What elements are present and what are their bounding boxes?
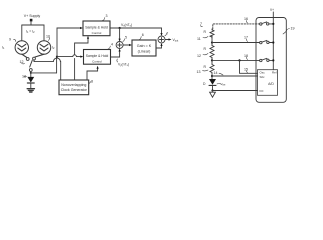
svg-text:Gain = K: Gain = K [137,44,152,48]
ref 6 [140,37,142,40]
label V+ [270,8,274,12]
ref 7b dashed line [201,26,203,27]
node diode anode junction [30,72,32,74]
svg-text:12: 12 [20,60,24,64]
arrowhead box1 control [87,36,89,39]
wire box2 output to summer1 [111,50,120,57]
wire box1 output [110,28,162,35]
wire gnd to chip [213,90,258,92]
svg-text:Vx(nTs): Vx(nTs) [121,23,132,28]
label 14 [214,71,218,75]
switch row2 [260,41,262,43]
clock generator box 8 [59,80,89,95]
switch throw contact right [33,57,36,60]
resistor R11 [210,29,214,38]
arrowhead summer1 top [119,39,121,42]
ground [27,88,34,90]
resistor R13 [210,64,214,73]
svg-text:12: 12 [197,54,201,58]
gain box 6 [132,40,156,56]
wire up to S&H input rail [56,57,58,73]
wire row3 [212,58,260,65]
ref 12 [22,62,25,65]
wire clock to box2 control [87,67,98,80]
ref 8 [89,82,91,84]
current source I2 [37,41,50,54]
wire row3 branch to A/D [240,60,258,73]
svg-text:I1 = I2: I1 = I2 [26,30,35,35]
wire diode to gnd node [212,86,214,91]
label 17 [244,36,248,40]
arrowhead box1 input [80,27,83,29]
svg-text:14: 14 [214,71,218,75]
ref 13 [24,75,27,78]
svg-text:V+: V+ [270,8,274,12]
label 16 [244,17,248,21]
svg-text:Sample & Hold: Sample & Hold [85,25,108,29]
wire supply rail [22,24,44,26]
sample & hold box 3 [83,21,110,36]
label VBE [217,83,221,86]
arrowhead gain input [129,44,132,46]
svg-text:V+ Supply: V+ Supply [24,14,41,18]
arrowhead summer1 bottom [119,49,121,52]
wire right source to switch throw [35,54,44,57]
wire dashed row1 [213,24,260,29]
svg-text:S/H: S/H [260,75,265,79]
svg-text:Control: Control [92,60,102,64]
ref 5 [123,39,125,42]
arrowhead summer2 top [160,33,162,36]
svg-text:Vout: Vout [173,38,179,43]
switch row3 [260,59,262,61]
svg-text:13: 13 [197,70,201,74]
svg-text:A/D: A/D [268,82,274,86]
svg-text:15: 15 [244,68,248,72]
summer 5 [116,42,123,49]
ref 10 [48,38,51,41]
node rail row2 [272,41,274,43]
node rail row3 [272,59,274,61]
sample & hold box 4 [84,50,111,65]
arrowhead summer2 bottom [160,43,162,46]
diode D [209,79,216,85]
arrowhead box2 control [97,66,99,69]
label I1 = I2 [26,30,35,35]
svg-text:3: 3 [106,14,108,18]
node gnd junction [211,89,213,91]
svg-text:10: 10 [46,35,50,39]
ref 19 [283,29,290,35]
chip outline 19 [256,18,286,103]
wire right source top [43,25,45,41]
wire supply stem [30,21,32,25]
svg-text:9: 9 [9,38,11,42]
svg-text:19: 19 [291,27,295,31]
node V+ supply junction [30,19,33,22]
svg-text:Osc: Osc [260,70,266,74]
label I2 [52,46,55,51]
wire up to box1 input [57,28,82,57]
svg-text:13: 13 [22,75,26,79]
switch throw contact left [26,58,29,61]
svg-text:7: 7 [200,22,202,26]
svg-text:17: 17 [244,36,248,40]
node J1 [211,41,213,43]
ref 9 [14,39,16,41]
label Vy(nTs) [118,63,129,68]
resistor R12 [210,46,214,58]
label Vout [173,38,179,43]
arrowhead box2 input [80,56,83,58]
svg-text:11: 11 [197,37,201,41]
wire diode to ground [30,83,32,88]
svg-text:6: 6 [142,33,144,37]
wire clock to box1 control [75,37,88,80]
wire pole to diode [30,71,32,77]
node Vx junction [119,27,121,29]
label I1 [2,46,5,51]
svg-text:4: 4 [111,43,113,47]
wire junction to box2 input with hop [57,55,82,57]
svg-text:(Linear): (Linear) [138,49,151,53]
wire output [165,39,170,41]
node V+ Supply label [24,14,41,18]
wire summer1 to gain [123,44,130,46]
label 18 [244,54,248,58]
label 15 [244,68,248,72]
switch pole contact [29,69,32,72]
switch arm [30,60,33,67]
summer 7 [158,36,165,43]
wire left source to switch throw [22,54,27,57]
svg-text:8: 8 [91,80,93,84]
wire row2 [212,36,260,46]
wire diode node to right [31,72,57,74]
svg-text:Sample & Hold: Sample & Hold [86,54,109,58]
diode D1 [27,77,34,83]
wire row4 to A/D [212,73,258,79]
svg-text:Clock Generator: Clock Generator [61,88,88,92]
svg-text:7: 7 [166,32,168,36]
node row3 branch [238,59,240,61]
arrowhead output [169,38,172,40]
svg-text:5: 5 [125,36,127,40]
wire gain output to summer2 [156,45,162,49]
node S&H input junction [56,56,58,58]
wire junction down to summer1 [119,28,121,40]
current source I1 [15,41,28,54]
node J2 [211,59,213,61]
ground arrow [210,92,216,97]
svg-text:16: 16 [244,17,248,21]
wire right throw with hop to clock [34,58,61,80]
svg-text:Ref: Ref [272,70,277,74]
ref 4 [108,46,110,49]
wire V+ rail [272,12,274,70]
svg-text:Vy(nTs): Vy(nTs) [118,63,129,68]
switch row1 [260,23,262,25]
svg-text:18: 18 [244,54,248,58]
node rail row1 [272,23,274,25]
node J3 [211,75,213,77]
ref 3 [103,18,105,21]
wire left source top [21,25,23,41]
svg-text:Nonoverlapping: Nonoverlapping [61,83,86,87]
svg-text:Control: Control [92,31,102,35]
label Vx(nTs) [121,23,132,28]
A/D converter box [258,70,278,96]
ref 7 [165,33,167,36]
